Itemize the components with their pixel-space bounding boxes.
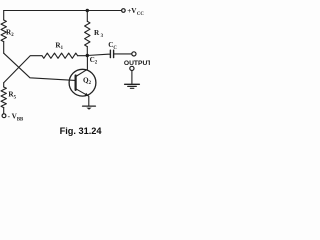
wire R3 to collector node — [86, 47, 88, 56]
terminal output bottom — [130, 66, 134, 70]
wire left vertical lower — [3, 83, 5, 87]
wire left vertical upper — [3, 11, 5, 21]
wire diagonal to R1 — [4, 56, 42, 83]
terminal +VCC — [122, 9, 126, 13]
ground emitter bar — [83, 105, 96, 107]
wire right branch from rail — [86, 11, 88, 22]
transistor Q2 circle — [69, 69, 96, 96]
wire top rail — [4, 10, 122, 12]
wire capacitor to output terminal — [114, 53, 132, 55]
transistor Q2 emitter arrowhead — [85, 93, 89, 96]
ground output 3-bar — [125, 83, 140, 85]
wire diagonal to base — [4, 53, 76, 80]
transistor Q2 collector lead — [76, 56, 88, 77]
transistor Q2 base bar — [74, 76, 76, 90]
resistor R3 — [85, 21, 90, 46]
resistor R5 — [1, 87, 6, 108]
node top rail junction — [86, 9, 89, 12]
wire collector node to capacitor — [87, 54, 110, 55]
svg-text:OUTPUT: OUTPUT — [124, 60, 150, 67]
transistor Q2 emitter lead — [76, 89, 89, 106]
wire lower terminal to ground — [131, 71, 133, 85]
resistor R2 — [1, 20, 6, 42]
terminal -VBB — [2, 114, 6, 118]
capacitor CC plates — [109, 50, 111, 57]
wire R1 to collector node — [78, 55, 88, 57]
terminal output top — [132, 52, 136, 56]
wire R5 to -VBB terminal — [3, 108, 5, 114]
wire left vertical mid — [3, 42, 5, 54]
ground emitter triangle — [86, 108, 91, 110]
node collector junction — [86, 54, 89, 57]
svg-text:Fig. 31.24: Fig. 31.24 — [60, 126, 103, 136]
resistor R1 — [42, 53, 78, 58]
